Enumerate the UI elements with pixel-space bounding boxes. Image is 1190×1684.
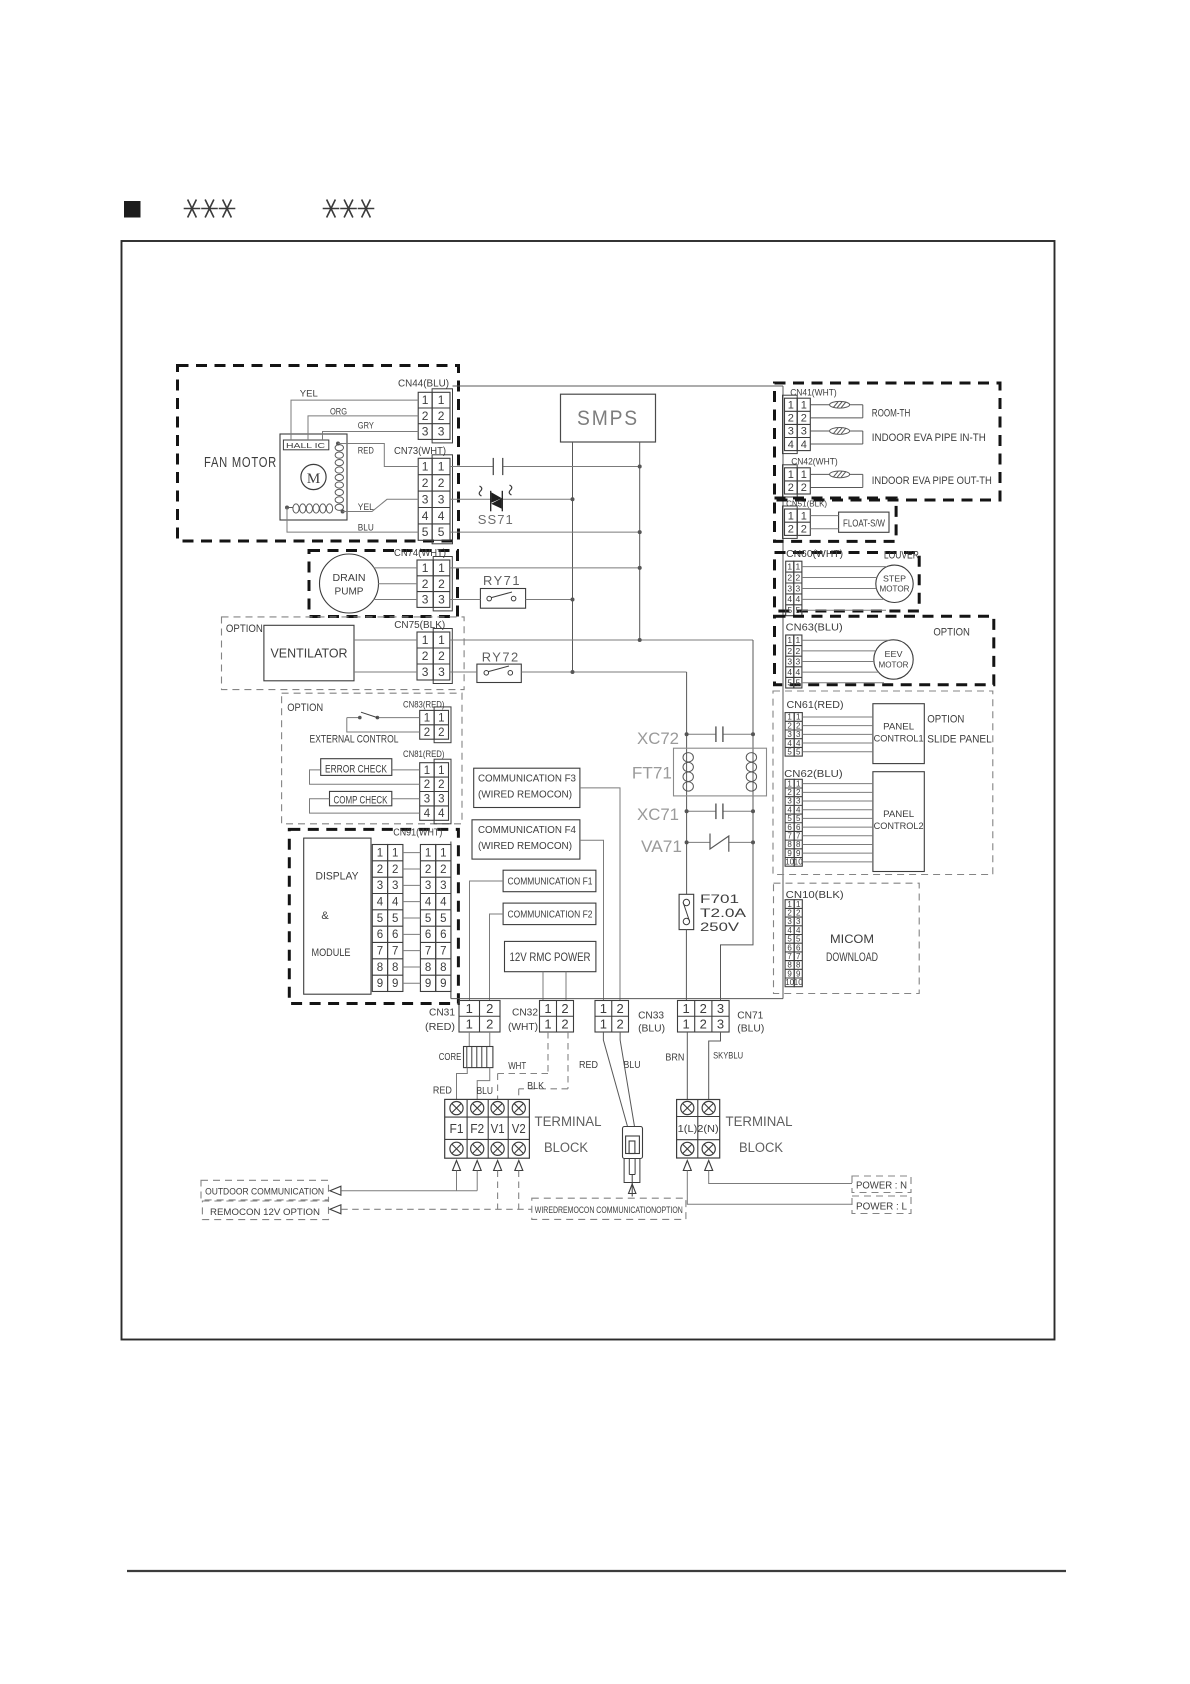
svg-text:4: 4	[425, 897, 432, 909]
svg-text:5: 5	[787, 678, 792, 688]
svg-text:1: 1	[787, 562, 792, 572]
svg-text:OPTION: OPTION	[287, 702, 323, 714]
svg-text:4: 4	[788, 439, 794, 451]
svg-text:9: 9	[425, 978, 431, 990]
svg-text:3: 3	[717, 1001, 724, 1016]
svg-text:6: 6	[392, 929, 398, 941]
svg-text:8: 8	[787, 840, 792, 849]
svg-text:1: 1	[392, 848, 398, 860]
svg-text:T2.0A: T2.0A	[700, 908, 746, 920]
svg-text:OPTION: OPTION	[933, 627, 970, 639]
svg-text:2: 2	[438, 649, 445, 663]
svg-text:3: 3	[787, 656, 792, 666]
svg-text:3: 3	[422, 665, 429, 679]
svg-text:1: 1	[787, 635, 792, 645]
svg-text:1: 1	[466, 1017, 473, 1032]
svg-text:1: 1	[795, 635, 800, 645]
svg-text:6: 6	[796, 823, 801, 832]
svg-text:2: 2	[787, 908, 792, 917]
svg-text:7: 7	[392, 946, 398, 958]
svg-text:CN33: CN33	[638, 1011, 664, 1022]
svg-text:V1: V1	[491, 1122, 505, 1136]
svg-text:3: 3	[377, 880, 383, 892]
svg-text:2: 2	[795, 646, 800, 656]
svg-text:4: 4	[787, 594, 792, 604]
svg-text:7: 7	[787, 952, 792, 961]
svg-text:POWER : N: POWER : N	[856, 1179, 907, 1191]
svg-text:3: 3	[796, 917, 801, 926]
svg-text:BLU: BLU	[624, 1060, 641, 1071]
svg-text:8: 8	[787, 961, 792, 970]
svg-text:9: 9	[796, 849, 801, 858]
svg-text:COMP CHECK: COMP CHECK	[334, 795, 388, 807]
svg-text:1: 1	[796, 779, 801, 788]
svg-text:2: 2	[440, 864, 446, 876]
svg-text:(BLU): (BLU)	[638, 1024, 665, 1035]
svg-text:BLOCK: BLOCK	[739, 1140, 783, 1155]
svg-text:RED: RED	[358, 446, 374, 457]
svg-text:(WHT): (WHT)	[508, 1022, 538, 1033]
svg-text:2: 2	[486, 1001, 493, 1016]
svg-text:PUMP: PUMP	[335, 586, 364, 598]
svg-text:2: 2	[617, 1017, 624, 1032]
svg-text:9: 9	[377, 978, 383, 990]
svg-text:4: 4	[438, 808, 445, 820]
svg-text:10: 10	[794, 978, 803, 987]
svg-text:2: 2	[561, 1001, 568, 1016]
svg-text:6: 6	[787, 823, 792, 832]
svg-text:4: 4	[801, 439, 807, 451]
svg-text:CN83(RED): CN83(RED)	[403, 700, 445, 710]
svg-text:3: 3	[438, 492, 445, 506]
svg-text:FAN MOTOR: FAN MOTOR	[204, 454, 277, 471]
svg-text:3: 3	[438, 425, 445, 439]
svg-text:GRY: GRY	[358, 420, 375, 431]
svg-text:6: 6	[796, 943, 801, 952]
svg-text:5: 5	[787, 605, 792, 615]
svg-text:SMPS: SMPS	[577, 407, 639, 430]
svg-text:STEP: STEP	[883, 574, 906, 584]
svg-text:4: 4	[796, 926, 801, 935]
svg-text:DOWNLOAD: DOWNLOAD	[826, 950, 878, 964]
svg-text:YEL: YEL	[358, 502, 374, 513]
svg-text:CN44(BLU): CN44(BLU)	[398, 379, 449, 390]
svg-text:CONTROL1: CONTROL1	[874, 734, 924, 745]
svg-text:2: 2	[392, 864, 398, 876]
svg-text:2: 2	[377, 864, 383, 876]
svg-text:(WIRED REMOCON): (WIRED REMOCON)	[478, 841, 572, 852]
svg-text:TERMINAL: TERMINAL	[726, 1114, 793, 1129]
svg-text:2: 2	[422, 409, 429, 423]
svg-text:&: &	[321, 910, 329, 922]
svg-text:RED: RED	[433, 1086, 452, 1097]
svg-text:EXTERNAL CONTROL: EXTERNAL CONTROL	[310, 734, 399, 746]
svg-text:2: 2	[617, 1001, 624, 1016]
svg-text:9: 9	[787, 849, 792, 858]
svg-text:6: 6	[425, 929, 431, 941]
svg-text:F1: F1	[450, 1122, 464, 1136]
svg-text:1: 1	[796, 900, 801, 909]
svg-text:1: 1	[544, 1001, 551, 1016]
svg-text:3: 3	[438, 794, 444, 806]
svg-text:4: 4	[440, 897, 447, 909]
svg-text:YEL: YEL	[300, 388, 318, 399]
svg-text:2: 2	[424, 727, 430, 739]
svg-text:4: 4	[787, 667, 792, 677]
svg-text:1: 1	[377, 848, 383, 860]
svg-text:CN31: CN31	[429, 1008, 455, 1019]
svg-text:2: 2	[424, 779, 430, 791]
svg-text:250V: 250V	[700, 922, 739, 934]
svg-text:2: 2	[787, 788, 792, 797]
svg-text:1: 1	[682, 1001, 689, 1016]
svg-text:XC72: XC72	[637, 729, 679, 748]
svg-text:5: 5	[796, 747, 801, 756]
svg-text:3: 3	[795, 583, 800, 593]
svg-text:2: 2	[438, 409, 445, 423]
svg-text:BLU: BLU	[358, 523, 374, 534]
svg-text:OPTION: OPTION	[927, 714, 964, 726]
svg-text:BRN: BRN	[665, 1053, 684, 1064]
svg-text:4: 4	[795, 594, 800, 604]
svg-text:1: 1	[801, 469, 807, 481]
svg-text:8: 8	[377, 962, 383, 974]
svg-text:3: 3	[422, 593, 429, 607]
svg-text:5: 5	[440, 913, 446, 925]
svg-text:3: 3	[787, 730, 792, 739]
svg-text:INDOOR EVA PIPE IN-TH: INDOOR EVA PIPE IN-TH	[872, 432, 986, 444]
svg-text:V2: V2	[512, 1122, 526, 1136]
svg-text:2: 2	[425, 864, 431, 876]
svg-text:DISPLAY: DISPLAY	[316, 871, 360, 883]
svg-text:5: 5	[795, 678, 800, 688]
svg-text:CN71: CN71	[737, 1011, 763, 1022]
svg-text:7: 7	[796, 832, 801, 841]
svg-text:BLOCK: BLOCK	[544, 1140, 588, 1155]
svg-text:F701: F701	[700, 894, 739, 906]
svg-text:5: 5	[796, 935, 801, 944]
svg-text:1: 1	[788, 399, 794, 411]
svg-text:3: 3	[787, 917, 792, 926]
svg-text:2: 2	[787, 721, 792, 730]
svg-text:SS71: SS71	[478, 512, 514, 527]
svg-text:4: 4	[438, 509, 445, 523]
svg-text:LOUVER: LOUVER	[884, 549, 919, 561]
svg-text:VENTILATOR: VENTILATOR	[271, 647, 348, 661]
svg-text:4: 4	[795, 667, 800, 677]
svg-text:FLOAT-S/W: FLOAT-S/W	[843, 518, 885, 530]
svg-text:1: 1	[466, 1001, 473, 1016]
svg-text:1: 1	[440, 848, 446, 860]
svg-text:5: 5	[787, 935, 792, 944]
svg-text:M: M	[307, 471, 320, 487]
svg-text:COMMUNICATION F2: COMMUNICATION F2	[508, 910, 593, 921]
svg-text:TERMINAL: TERMINAL	[535, 1114, 602, 1129]
svg-text:WHT: WHT	[508, 1061, 526, 1072]
svg-text:4: 4	[787, 926, 792, 935]
svg-text:VA71: VA71	[641, 837, 682, 856]
svg-text:CN32: CN32	[512, 1008, 538, 1019]
svg-text:1: 1	[438, 633, 445, 647]
svg-text:HALL IC: HALL IC	[286, 443, 325, 450]
svg-text:4: 4	[796, 805, 801, 814]
svg-text:5: 5	[787, 814, 792, 823]
svg-text:3: 3	[796, 797, 801, 806]
svg-text:6: 6	[440, 929, 446, 941]
svg-text:CN91(WHT): CN91(WHT)	[393, 828, 442, 839]
svg-text:1: 1	[787, 713, 792, 722]
svg-text:1: 1	[787, 779, 792, 788]
svg-text:7: 7	[440, 946, 446, 958]
svg-text:1: 1	[787, 900, 792, 909]
svg-text:2: 2	[788, 482, 794, 494]
svg-text:5: 5	[787, 747, 792, 756]
svg-text:2: 2	[438, 727, 444, 739]
svg-text:2: 2	[801, 524, 807, 536]
svg-text:WIREDREMOCON COMMUNICATIONOPTI: WIREDREMOCON COMMUNICATIONOPTION	[535, 1205, 683, 1216]
svg-text:1: 1	[788, 469, 794, 481]
svg-text:8: 8	[796, 961, 801, 970]
svg-text:SLIDE PANEL: SLIDE PANEL	[927, 734, 992, 746]
svg-text:MOTOR: MOTOR	[880, 584, 910, 594]
svg-text:2: 2	[796, 721, 801, 730]
svg-text:3: 3	[795, 656, 800, 666]
svg-text:BLU: BLU	[477, 1086, 494, 1097]
svg-text:2: 2	[561, 1017, 568, 1032]
svg-text:PANEL: PANEL	[883, 722, 914, 733]
svg-text:PANEL: PANEL	[883, 809, 914, 820]
svg-text:3: 3	[801, 426, 807, 438]
svg-text:SKYBLU: SKYBLU	[713, 1051, 743, 1061]
svg-text:2: 2	[700, 1017, 707, 1032]
svg-text:4: 4	[422, 509, 429, 523]
svg-text:CN63(BLU): CN63(BLU)	[786, 622, 843, 633]
svg-text:3: 3	[440, 880, 446, 892]
svg-text:CN74(WHT): CN74(WHT)	[394, 548, 446, 559]
svg-text:5: 5	[377, 913, 383, 925]
svg-text:POWER : L: POWER : L	[856, 1201, 907, 1213]
svg-text:RY71: RY71	[483, 573, 521, 588]
svg-text:MOTOR: MOTOR	[879, 660, 909, 670]
svg-text:(RED): (RED)	[425, 1022, 455, 1033]
svg-text:XC71: XC71	[637, 805, 679, 824]
svg-text:ROOM-TH: ROOM-TH	[872, 408, 911, 420]
svg-text:3: 3	[438, 593, 445, 607]
svg-text:3: 3	[392, 880, 398, 892]
svg-text:5: 5	[392, 913, 398, 925]
svg-text:RY72: RY72	[482, 650, 520, 665]
svg-text:CORE: CORE	[439, 1052, 462, 1063]
svg-text:2: 2	[438, 779, 444, 791]
svg-text:4: 4	[424, 808, 431, 820]
svg-text:1: 1	[425, 848, 431, 860]
svg-text:1: 1	[424, 713, 430, 725]
svg-text:7: 7	[796, 952, 801, 961]
svg-text:9: 9	[440, 978, 446, 990]
svg-text:3: 3	[717, 1017, 724, 1032]
svg-text:CN42(WHT): CN42(WHT)	[791, 457, 838, 468]
svg-text:3: 3	[424, 794, 430, 806]
svg-text:9: 9	[796, 969, 801, 978]
svg-text:6: 6	[377, 929, 383, 941]
svg-text:8: 8	[392, 962, 398, 974]
svg-text:4: 4	[796, 739, 801, 748]
svg-text:4: 4	[787, 739, 792, 748]
svg-text:1: 1	[424, 765, 430, 777]
svg-text:7: 7	[425, 946, 431, 958]
svg-text:CONTROL2: CONTROL2	[874, 821, 924, 832]
svg-text:1: 1	[422, 633, 429, 647]
svg-text:4: 4	[787, 805, 792, 814]
svg-text:7: 7	[377, 946, 383, 958]
svg-text:1: 1	[788, 510, 794, 522]
svg-text:2: 2	[486, 1017, 493, 1032]
svg-text:CN51(BLK): CN51(BLK)	[786, 499, 827, 508]
svg-text:2: 2	[700, 1001, 707, 1016]
svg-text:8: 8	[796, 840, 801, 849]
svg-text:1: 1	[438, 765, 444, 777]
svg-text:RED: RED	[579, 1060, 598, 1071]
svg-text:5: 5	[795, 605, 800, 615]
svg-text:4: 4	[377, 897, 384, 909]
svg-text:CN62(BLU): CN62(BLU)	[784, 769, 843, 780]
svg-text:9: 9	[787, 969, 792, 978]
svg-text:2: 2	[787, 572, 792, 582]
svg-text:MICOM: MICOM	[830, 932, 874, 946]
svg-text:1: 1	[682, 1017, 689, 1032]
svg-text:CN60(WHT): CN60(WHT)	[786, 549, 843, 560]
svg-text:3: 3	[425, 880, 431, 892]
svg-text:COMMUNICATION F4: COMMUNICATION F4	[478, 825, 576, 836]
svg-text:DRAIN: DRAIN	[333, 572, 366, 584]
svg-text:1: 1	[422, 460, 429, 474]
svg-text:8: 8	[425, 962, 431, 974]
svg-text:5: 5	[796, 814, 801, 823]
svg-text:9: 9	[392, 978, 398, 990]
svg-text:3: 3	[422, 492, 429, 506]
svg-text:8: 8	[440, 962, 446, 974]
svg-text:(WIRED REMOCON): (WIRED REMOCON)	[478, 790, 572, 801]
svg-text:1: 1	[544, 1017, 551, 1032]
svg-text:2: 2	[787, 646, 792, 656]
svg-text:5: 5	[425, 913, 431, 925]
svg-text:INDOOR EVA PIPE OUT-TH: INDOOR EVA PIPE OUT-TH	[872, 475, 992, 487]
svg-text:1: 1	[600, 1001, 607, 1016]
svg-text:(BLU): (BLU)	[737, 1024, 764, 1035]
svg-text:2: 2	[438, 577, 445, 591]
svg-text:OPTION: OPTION	[226, 623, 263, 635]
svg-text:MODULE: MODULE	[312, 947, 351, 959]
svg-text:2: 2	[788, 413, 794, 425]
svg-text:2: 2	[796, 908, 801, 917]
svg-text:5: 5	[438, 525, 445, 539]
svg-text:3: 3	[438, 665, 445, 679]
svg-text:1: 1	[438, 460, 445, 474]
svg-text:1: 1	[422, 561, 429, 575]
svg-text:COMMUNICATION F3: COMMUNICATION F3	[478, 774, 576, 785]
svg-text:3: 3	[788, 426, 794, 438]
svg-text:2: 2	[438, 476, 445, 490]
svg-text:2: 2	[422, 649, 429, 663]
svg-text:2: 2	[801, 413, 807, 425]
svg-text:1(L)2(N): 1(L)2(N)	[678, 1124, 719, 1135]
svg-text:2: 2	[796, 788, 801, 797]
svg-text:6: 6	[787, 943, 792, 952]
svg-text:2: 2	[422, 476, 429, 490]
svg-text:3: 3	[787, 583, 792, 593]
svg-text:1: 1	[801, 399, 807, 411]
svg-text:CN61(RED): CN61(RED)	[787, 700, 844, 711]
svg-text:1: 1	[600, 1017, 607, 1032]
svg-text:CN81(RED): CN81(RED)	[403, 749, 445, 759]
svg-text:FT71: FT71	[632, 763, 672, 782]
svg-text:1: 1	[438, 561, 445, 575]
svg-text:ERROR CHECK: ERROR CHECK	[325, 764, 387, 776]
svg-text:2: 2	[795, 572, 800, 582]
svg-text:3: 3	[787, 797, 792, 806]
svg-text:1: 1	[438, 713, 444, 725]
svg-text:5: 5	[422, 525, 429, 539]
svg-text:CN75(BLK): CN75(BLK)	[394, 620, 445, 631]
svg-text:2: 2	[788, 524, 794, 536]
svg-text:1: 1	[438, 393, 445, 407]
svg-text:3: 3	[796, 730, 801, 739]
svg-text:F2: F2	[470, 1122, 484, 1136]
svg-text:1: 1	[422, 393, 429, 407]
svg-text:BLK: BLK	[527, 1081, 544, 1092]
svg-text:1: 1	[795, 562, 800, 572]
svg-text:3: 3	[422, 425, 429, 439]
svg-text:12V RMC POWER: 12V RMC POWER	[510, 950, 591, 964]
svg-text:2: 2	[801, 482, 807, 494]
svg-text:1: 1	[801, 510, 807, 522]
svg-text:OUTDOOR COMMUNICATION: OUTDOOR COMMUNICATION	[205, 1186, 324, 1197]
svg-text:2: 2	[422, 577, 429, 591]
svg-text:REMOCON 12V OPTION: REMOCON 12V OPTION	[210, 1207, 320, 1218]
svg-text:EEV: EEV	[885, 649, 903, 659]
svg-text:1: 1	[796, 713, 801, 722]
svg-text:7: 7	[787, 832, 792, 841]
svg-text:ORG: ORG	[330, 406, 347, 417]
svg-text:COMMUNICATION F1: COMMUNICATION F1	[508, 877, 593, 888]
svg-text:10: 10	[794, 858, 803, 867]
svg-text:4: 4	[392, 897, 399, 909]
